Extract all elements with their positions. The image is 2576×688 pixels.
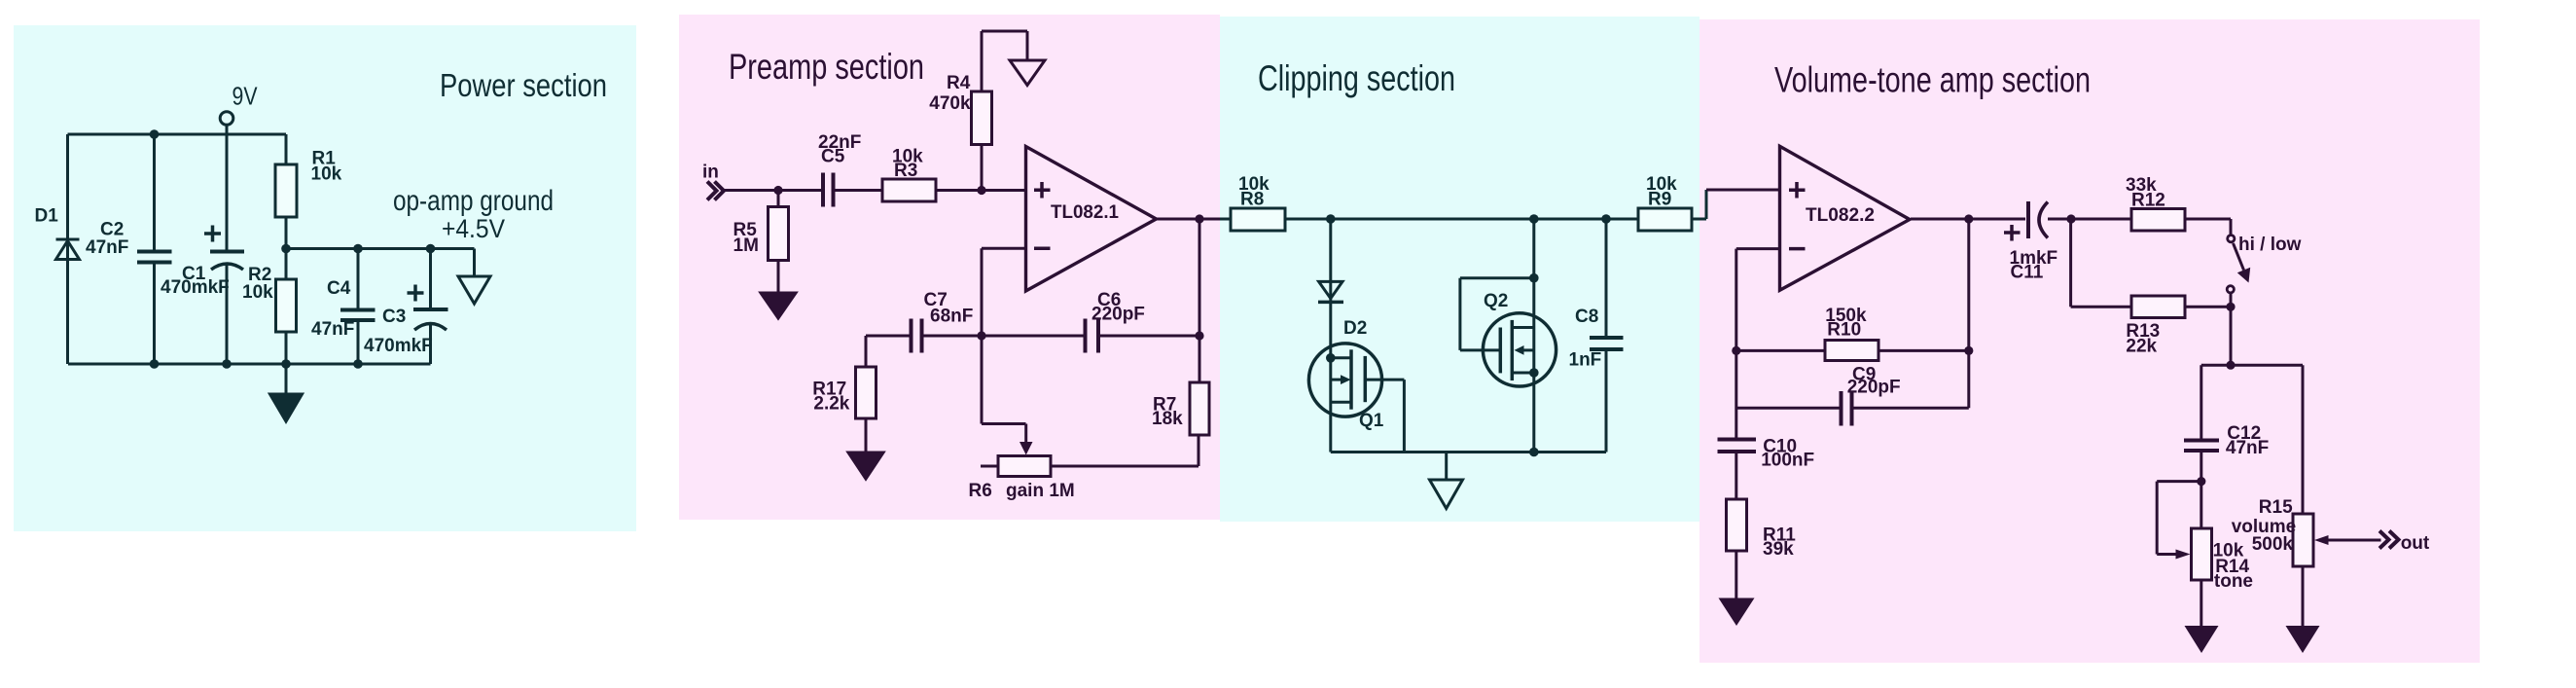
ground below R5 (filled)	[761, 293, 796, 318]
ground below R15 (filled)	[2286, 626, 2320, 653]
node bottom rail / Q2	[1529, 448, 1539, 457]
svg-text:R15: R15	[2259, 497, 2293, 518]
node Q2	[1529, 214, 1539, 224]
section background: volume-tone	[1699, 19, 2480, 663]
wire minus input feedback	[982, 248, 1026, 336]
wire R10 row	[1736, 349, 1969, 352]
svg-text:hi / low: hi / low	[2238, 235, 2302, 255]
section background: clipping	[1220, 17, 1699, 522]
resistor R1	[275, 134, 297, 249]
wire C10 to R11	[1735, 453, 1737, 499]
node output	[1964, 214, 1973, 223]
resistor R13	[2131, 296, 2185, 318]
diode D1	[56, 239, 80, 260]
ground below R11 (filled)	[1719, 598, 1755, 627]
potentiometer R15	[2293, 514, 2313, 626]
node C8	[1601, 214, 1611, 224]
wire into op-amp 2 plus input	[1706, 189, 1779, 192]
svg-text:22k: 22k	[2126, 337, 2157, 357]
resistor R5	[769, 191, 789, 294]
node C4 top	[353, 244, 363, 254]
capacitor C8	[1590, 219, 1624, 453]
svg-text:10k: 10k	[242, 282, 273, 303]
capacitor C9	[1842, 391, 1852, 426]
switch lever arrowhead	[2237, 268, 2250, 283]
resistor R11	[1727, 499, 1747, 598]
wire into R8	[1220, 218, 1231, 221]
svg-text:R9: R9	[1648, 190, 1671, 210]
svg-text:gain 1M: gain 1M	[1006, 481, 1075, 501]
svg-text:47nF: 47nF	[2226, 438, 2269, 458]
wire bottom rail	[68, 363, 431, 366]
capacitor C7	[912, 319, 922, 353]
node switch / R13	[2226, 303, 2235, 311]
svg-text:220pF: 220pF	[1847, 378, 1901, 398]
wire output down to C6 row	[1199, 219, 1201, 382]
wire branch row	[2201, 364, 2303, 367]
svg-text:47nF: 47nF	[311, 319, 354, 340]
node R1/R2 divider	[281, 244, 291, 254]
capacitor C3 (electrolytic)	[408, 249, 448, 365]
wire minus input feedback	[1736, 249, 1779, 439]
ground below R14 (filled)	[2185, 626, 2219, 653]
svg-text:R3: R3	[894, 161, 917, 181]
resistor R2	[276, 249, 297, 365]
wire R13 row	[2071, 306, 2231, 308]
svg-text:+4.5V: +4.5V	[442, 214, 505, 243]
capacitor C6	[1086, 319, 1099, 353]
svg-text:in: in	[702, 163, 719, 183]
node input / R5	[773, 186, 782, 195]
svg-text:Q2: Q2	[1484, 291, 1508, 311]
op-amp ground symbol (open triangle)	[458, 276, 490, 304]
wire R9 to op-amp 2 (step up)	[1692, 190, 1706, 219]
svg-text:Power section: Power section	[440, 67, 607, 103]
svg-text:TL082.2: TL082.2	[1806, 205, 1875, 226]
node R4 bottom	[977, 186, 985, 195]
wire input to C5	[724, 189, 823, 192]
node output	[1195, 214, 1203, 223]
svg-text:470mkF: 470mkF	[161, 277, 230, 298]
capacitor C2	[137, 134, 172, 364]
diode D2	[1318, 281, 1343, 302]
svg-text:R12: R12	[2131, 191, 2165, 211]
transistor Q1	[1308, 344, 1404, 453]
op-amp U1 TL082.1	[1026, 147, 1157, 292]
wire output to C11	[1911, 218, 2025, 221]
wire output branch down	[1967, 219, 1970, 408]
svg-text:D1: D1	[35, 206, 59, 227]
node bottom C2	[150, 359, 160, 369]
ground below R17 (filled)	[848, 453, 883, 479]
svg-text:470k: 470k	[929, 93, 971, 114]
svg-text:18k: 18k	[1152, 409, 1183, 429]
svg-text:C4: C4	[327, 278, 351, 299]
node bottom C4	[353, 359, 363, 369]
svg-text:tone: tone	[2214, 571, 2253, 592]
svg-text:2.2k: 2.2k	[813, 394, 849, 415]
capacitor C10	[1718, 440, 1757, 453]
wire D2/Q1 vertical	[1329, 219, 1332, 453]
wire C7 to R17	[865, 336, 868, 367]
svg-text:100nF: 100nF	[1761, 451, 1814, 471]
svg-text:D2: D2	[1343, 318, 1367, 339]
node C12 / wiper loop	[2197, 477, 2205, 486]
node tone/volume branch	[2226, 361, 2235, 370]
svg-text:Volume-tone amp section: Volume-tone amp section	[1774, 60, 2091, 100]
wire R12 to switch	[2185, 219, 2231, 235]
capacitor C5	[823, 173, 834, 207]
wire op-amp ground rail	[286, 247, 475, 250]
wire to op-amp ground symbol	[473, 249, 476, 277]
svg-text:47nF: 47nF	[86, 237, 128, 258]
minus input marker	[1034, 247, 1051, 251]
9V terminal	[220, 112, 233, 126]
svg-text:out: out	[2401, 533, 2430, 554]
wire top rail	[68, 133, 287, 136]
svg-text:Preamp section: Preamp section	[729, 47, 924, 87]
svg-text:500k: 500k	[2252, 534, 2294, 555]
wire below switch	[2230, 294, 2233, 366]
svg-text:op-amp ground: op-amp ground	[393, 185, 554, 217]
node bottom R2	[281, 359, 291, 369]
wire C12 to R14	[2200, 453, 2202, 528]
wire to ground symbol	[1445, 453, 1448, 481]
section background: power	[14, 25, 636, 531]
node after C11	[2066, 214, 2075, 223]
wire R13 branch vertical	[2069, 219, 2072, 307]
node C6 row / R7	[1195, 331, 1203, 340]
node bottom C1	[222, 359, 232, 369]
svg-text:470mkF: 470mkF	[364, 336, 433, 356]
resistor R9	[1638, 208, 1692, 231]
wire C9 row	[1736, 407, 1969, 410]
node R10 right	[1964, 346, 1973, 355]
ground above op-amp (open triangle)	[1010, 60, 1045, 86]
wire R4 top to ground	[982, 31, 1027, 60]
svg-text:68nF: 68nF	[930, 307, 973, 327]
R15 wiper arrow to out	[2314, 535, 2381, 545]
potentiometer R6	[981, 435, 1199, 477]
resistor R3	[882, 179, 936, 201]
node D2	[1326, 214, 1336, 224]
wire terminal to top rail	[226, 125, 229, 134]
svg-text:R10: R10	[1827, 320, 1861, 341]
wire down to C12	[2200, 365, 2202, 438]
svg-text:39k: 39k	[1763, 539, 1794, 560]
svg-text:C3: C3	[382, 307, 406, 327]
capacitor C11 (electrolytic)	[2004, 201, 2048, 241]
svg-text:220pF: 220pF	[1091, 305, 1145, 325]
switch lever	[2234, 243, 2244, 271]
svg-text:C11: C11	[2011, 263, 2044, 283]
resistor R8	[1231, 208, 1285, 231]
node C3 top	[426, 244, 436, 254]
out chevrons	[2379, 531, 2399, 549]
resistor R12	[2131, 209, 2185, 232]
resistor R7	[1190, 382, 1209, 435]
op-amp U2 TL082.2	[1780, 146, 1911, 290]
svg-text:Clipping section: Clipping section	[1258, 58, 1455, 98]
wire R8 to R9	[1285, 218, 1638, 221]
svg-text:1nF: 1nF	[1569, 350, 1602, 371]
switch bottom contact	[2227, 286, 2234, 293]
svg-text:TL082.1: TL082.1	[1051, 202, 1119, 223]
capacitor C1 (electrolytic)	[204, 134, 244, 364]
wire R3 to op-amp	[936, 189, 1026, 192]
resistor R17	[856, 367, 877, 453]
wire C7 row	[866, 335, 1199, 338]
plus input marker	[1034, 182, 1051, 199]
transistor Q2	[1460, 219, 1556, 453]
svg-text:R4: R4	[947, 73, 971, 93]
node top rail / C2	[150, 129, 160, 139]
wire down to R15	[2302, 365, 2305, 514]
switch hi/low top contact	[2228, 235, 2235, 242]
svg-text:C5: C5	[821, 147, 845, 167]
svg-text:Q1: Q1	[1359, 411, 1384, 431]
capacitor C12	[2184, 441, 2219, 452]
input chevrons	[707, 182, 724, 200]
R14 wiper loop	[2157, 482, 2201, 555]
svg-text:C8: C8	[1575, 307, 1598, 327]
svg-text:1M: 1M	[733, 235, 759, 256]
node C7 row / minus branch	[977, 331, 985, 340]
node R10 left	[1732, 346, 1740, 355]
wire op-amp output	[1157, 218, 1221, 221]
minus input marker	[1789, 247, 1806, 251]
wire C11 to R12	[2048, 218, 2131, 221]
R6 wiper arrowhead	[1020, 442, 1033, 455]
svg-text:9V: 9V	[233, 82, 259, 111]
potentiometer R14	[2192, 528, 2212, 626]
wire bottom rail	[1331, 451, 1606, 453]
plus input marker	[1789, 182, 1806, 199]
wire left branch through D1	[66, 134, 69, 364]
resistor R4	[972, 31, 992, 191]
section background: preamp	[679, 15, 1220, 520]
wire C5 to R3	[834, 189, 883, 192]
svg-text:R6: R6	[969, 481, 992, 501]
resistor R10	[1825, 341, 1878, 361]
wire to R6 wiper	[982, 336, 1026, 446]
ground (open triangle)	[1430, 480, 1463, 509]
ground (filled)	[270, 364, 303, 421]
R14 wiper arrowhead	[2176, 550, 2191, 560]
capacitor C4	[340, 249, 376, 365]
svg-text:10k: 10k	[311, 164, 342, 185]
svg-text:R8: R8	[1240, 190, 1264, 210]
